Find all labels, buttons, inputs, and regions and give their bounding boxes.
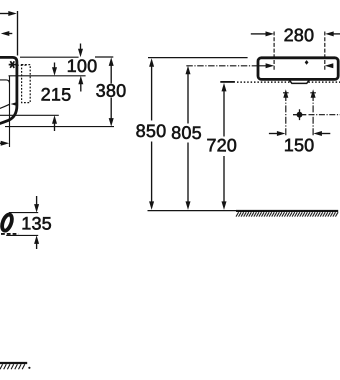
svg-text:150: 150 [284, 135, 315, 155]
svg-text:805: 805 [171, 123, 202, 143]
svg-text:280: 280 [284, 25, 315, 45]
svg-text:135: 135 [21, 213, 52, 233]
svg-text:380: 380 [96, 81, 127, 101]
svg-text:720: 720 [206, 135, 237, 155]
svg-text:215: 215 [41, 84, 72, 104]
svg-text:100: 100 [67, 56, 98, 76]
svg-text:850: 850 [136, 121, 167, 141]
